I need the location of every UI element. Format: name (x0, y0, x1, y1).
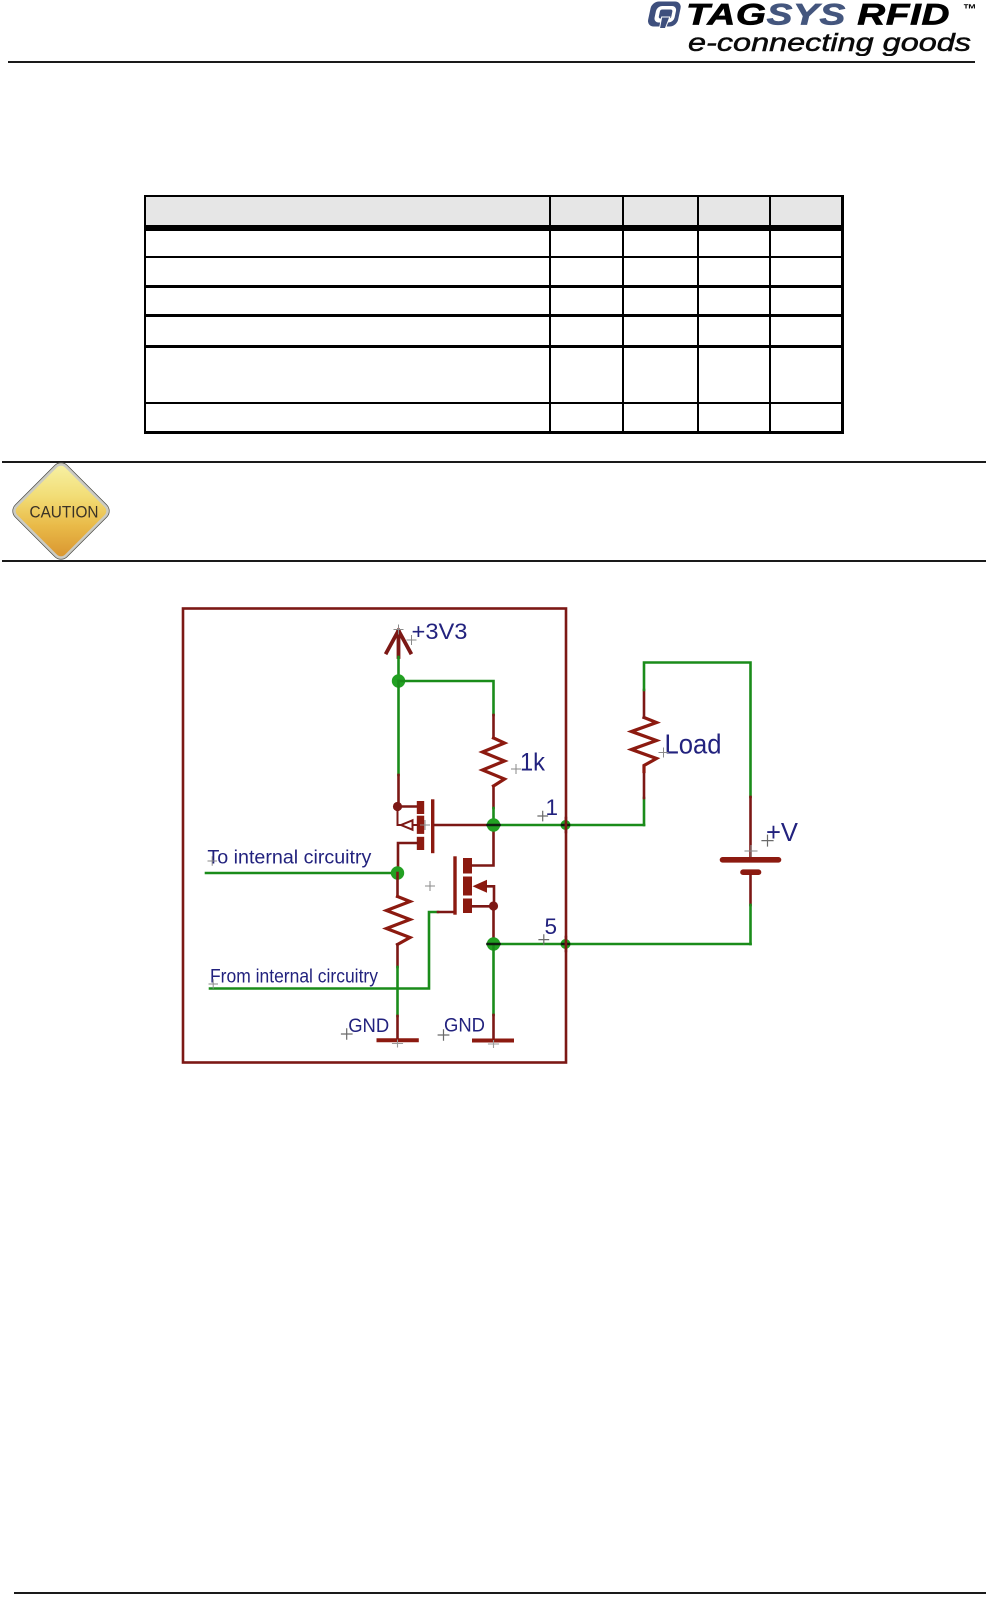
node 1 junction dot (487, 818, 500, 831)
pulldown resistor lead bottom (396, 945, 399, 968)
origin cross GND right (438, 1030, 449, 1040)
battery top plate (723, 857, 779, 863)
P-MOSFET body arrow (open, pointing left) (398, 807, 417, 830)
wire green battery to node5 (749, 905, 752, 944)
svg-text:GND: GND (444, 1015, 485, 1037)
logo TAGSYS RFID (640, 0, 987, 56)
node junction to-internal (391, 866, 404, 879)
origin cross from-internal (209, 980, 218, 989)
ground GND right stem (492, 1015, 495, 1040)
origin cross +V (762, 835, 773, 846)
resistor Load body (632, 718, 657, 772)
caution rule bottom (2, 560, 986, 562)
svg-text:From internal circuitry: From internal circuitry (210, 965, 379, 987)
pulldown resistor lead top (396, 873, 399, 897)
col line 4 (769, 195, 771, 434)
N-MOSFET gate lead red (438, 911, 454, 914)
schematic frame box (183, 609, 566, 1063)
col line 3 (697, 195, 699, 434)
origin cross arrow (394, 625, 403, 634)
wire green From-internal (210, 912, 438, 989)
N-MOSFET source lead (472, 905, 494, 908)
node 5 junction dot (487, 937, 500, 950)
origin cross 1k (512, 765, 521, 774)
wire green left vertical 3V3 node down (397, 681, 400, 775)
top border (144, 195, 844, 197)
caution sign (7, 457, 115, 565)
P-MOSFET gate lead to node 1 (435, 824, 489, 827)
origin cross N-MOSFET (426, 882, 435, 891)
origin cross pin5 (539, 935, 549, 944)
node 5 wire green (494, 943, 751, 946)
row line 2 (144, 285, 844, 287)
node 1 junction dot at box edge (561, 820, 571, 830)
junction dark cores node 1 (488, 824, 570, 827)
N-MOSFET gate line (453, 858, 456, 913)
origin cross P-MOSFET (421, 821, 430, 830)
header fill (144, 195, 844, 225)
col line 2 (622, 195, 624, 434)
pulldown resistor body (387, 897, 411, 945)
bottom border (144, 431, 844, 434)
junction dot P-MOSFET source/body (393, 802, 402, 811)
resistor 1k body (483, 738, 505, 786)
origin cross Load (659, 748, 668, 757)
node 1 wire green (494, 808, 645, 825)
svg-text:5: 5 (545, 914, 558, 939)
resistor 1k leads (492, 715, 495, 808)
N-MOSFET drain lead to node 1 (472, 830, 494, 866)
resistor Load lead top (643, 690, 646, 718)
frame edge over node dots (565, 818, 568, 951)
origin cross battery (745, 846, 757, 857)
op P-MOSFET Q1 source lead (398, 805, 418, 808)
col line left edge (144, 195, 147, 434)
origin cross to-internal (208, 857, 217, 866)
wire green To-internal (206, 872, 398, 875)
P-MOSFET gate line (431, 801, 434, 852)
junction dot N-MOSFET source/body (489, 901, 498, 910)
wire green load to battery top (644, 663, 751, 798)
svg-text:Load: Load (665, 729, 722, 760)
wire green to GND left (396, 967, 399, 1016)
wire green vertical from arrow to node (397, 657, 400, 681)
origin cross GND left (342, 1029, 353, 1039)
row line 4 (144, 345, 844, 348)
battery +V lead top (749, 797, 752, 857)
row line 3 (144, 314, 844, 316)
ground GND left stem (396, 1016, 399, 1039)
node 5 junction dot at box edge (561, 939, 571, 949)
origin cross pin1 (538, 811, 548, 821)
junction dark cores node 5 (488, 943, 570, 946)
wire red to P-MOSFET source (397, 775, 400, 806)
col line 1 (549, 195, 551, 434)
wire green node5 down to GND right (492, 944, 495, 1015)
caution rule top (2, 461, 986, 463)
svg-text:GND: GND (348, 1015, 389, 1037)
ground GND right bar (474, 1039, 512, 1043)
ground GND left bar (379, 1038, 417, 1042)
svg-text:+3V3: +3V3 (412, 619, 468, 644)
footer rule (14, 1592, 986, 1594)
row line 1 (144, 256, 844, 258)
svg-text:1k: 1k (520, 749, 545, 777)
P-MOSFET drain lead down (398, 843, 417, 869)
svg-text:+V: +V (766, 817, 799, 847)
battery lead bottom (749, 875, 752, 905)
wire green load top branch (643, 798, 646, 825)
origin cross label 3V3 (407, 636, 416, 645)
ground origin ticks (393, 1040, 403, 1047)
row line 5 (144, 402, 844, 404)
wire red source down to node 5 (492, 906, 495, 940)
logo icon (646, 2, 682, 29)
svg-text:To internal circuitry: To internal circuitry (207, 847, 372, 868)
N-MOSFET channel bars (463, 858, 472, 874)
resistor Load lead bottom (643, 772, 646, 799)
+3V3 supply arrow (387, 631, 411, 658)
P-MOSFET channel bars (417, 801, 424, 814)
header heavy rule (144, 225, 844, 231)
wire green node to 1k branch (399, 681, 494, 715)
spec table (empty) (144, 195, 844, 434)
col line right edge (841, 195, 844, 434)
battery bottom plate (743, 869, 759, 875)
N-MOSFET body arrow (filled, pointing left) (473, 880, 488, 893)
header rule (8, 61, 975, 63)
node junction 3V3 (392, 674, 405, 687)
